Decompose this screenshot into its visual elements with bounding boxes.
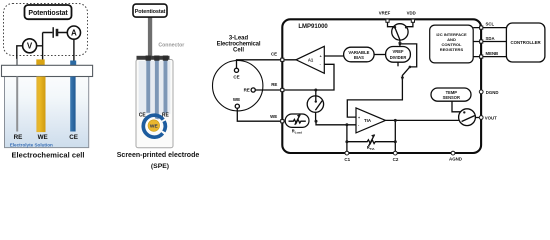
svg-text:Electrolyte Solution: Electrolyte Solution [10, 142, 53, 147]
svg-text:MENB: MENB [486, 51, 499, 56]
svg-text:C1: C1 [344, 157, 350, 162]
svg-text:SDA: SDA [486, 36, 495, 41]
svg-text:VDD: VDD [407, 10, 416, 15]
svg-text:SCL: SCL [486, 22, 495, 27]
svg-text:DIVIDER: DIVIDER [390, 55, 407, 60]
svg-text:C2: C2 [393, 157, 399, 162]
svg-text:RE: RE [244, 88, 250, 93]
svg-text:CE: CE [69, 134, 78, 141]
svg-text:(SPE): (SPE) [151, 163, 169, 170]
svg-text:RLoad: RLoad [292, 129, 302, 135]
svg-text:WE: WE [270, 114, 277, 119]
svg-text:CE: CE [233, 74, 239, 79]
svg-text:VREF: VREF [393, 49, 404, 54]
svg-text:+: + [358, 116, 360, 120]
svg-text:VREF: VREF [379, 10, 391, 15]
svg-text:TIA: TIA [364, 118, 372, 123]
svg-text:WE: WE [150, 124, 159, 130]
svg-text:BIAS: BIAS [354, 55, 364, 60]
svg-text:Electrochemical cell: Electrochemical cell [11, 151, 84, 160]
svg-text:AGND: AGND [449, 157, 462, 162]
svg-text:RTIA: RTIA [367, 145, 376, 151]
svg-text:VOUT: VOUT [485, 116, 497, 121]
svg-text:Potentiostat: Potentiostat [28, 10, 68, 17]
svg-text:CONTROLLER: CONTROLLER [511, 40, 542, 45]
svg-text:RE: RE [271, 82, 277, 87]
svg-text:WE: WE [233, 97, 240, 102]
svg-text:Connector: Connector [158, 42, 184, 48]
svg-text:Potentiostat: Potentiostat [135, 9, 166, 15]
svg-text:A1: A1 [308, 57, 314, 62]
svg-text:SENSOR: SENSOR [443, 95, 460, 100]
svg-text:WE: WE [38, 134, 48, 141]
svg-text:LMP91000: LMP91000 [298, 24, 328, 30]
svg-text:+: + [320, 55, 322, 59]
svg-text:V: V [27, 42, 33, 51]
svg-text:RE: RE [14, 134, 23, 141]
svg-text:CE: CE [271, 51, 277, 56]
svg-text:REGISTERS: REGISTERS [440, 47, 464, 52]
svg-text:Cell: Cell [233, 48, 244, 54]
svg-text:DGND: DGND [486, 90, 499, 95]
svg-text:Screen-printed electrode: Screen-printed electrode [117, 152, 200, 159]
svg-text:A: A [71, 29, 77, 38]
